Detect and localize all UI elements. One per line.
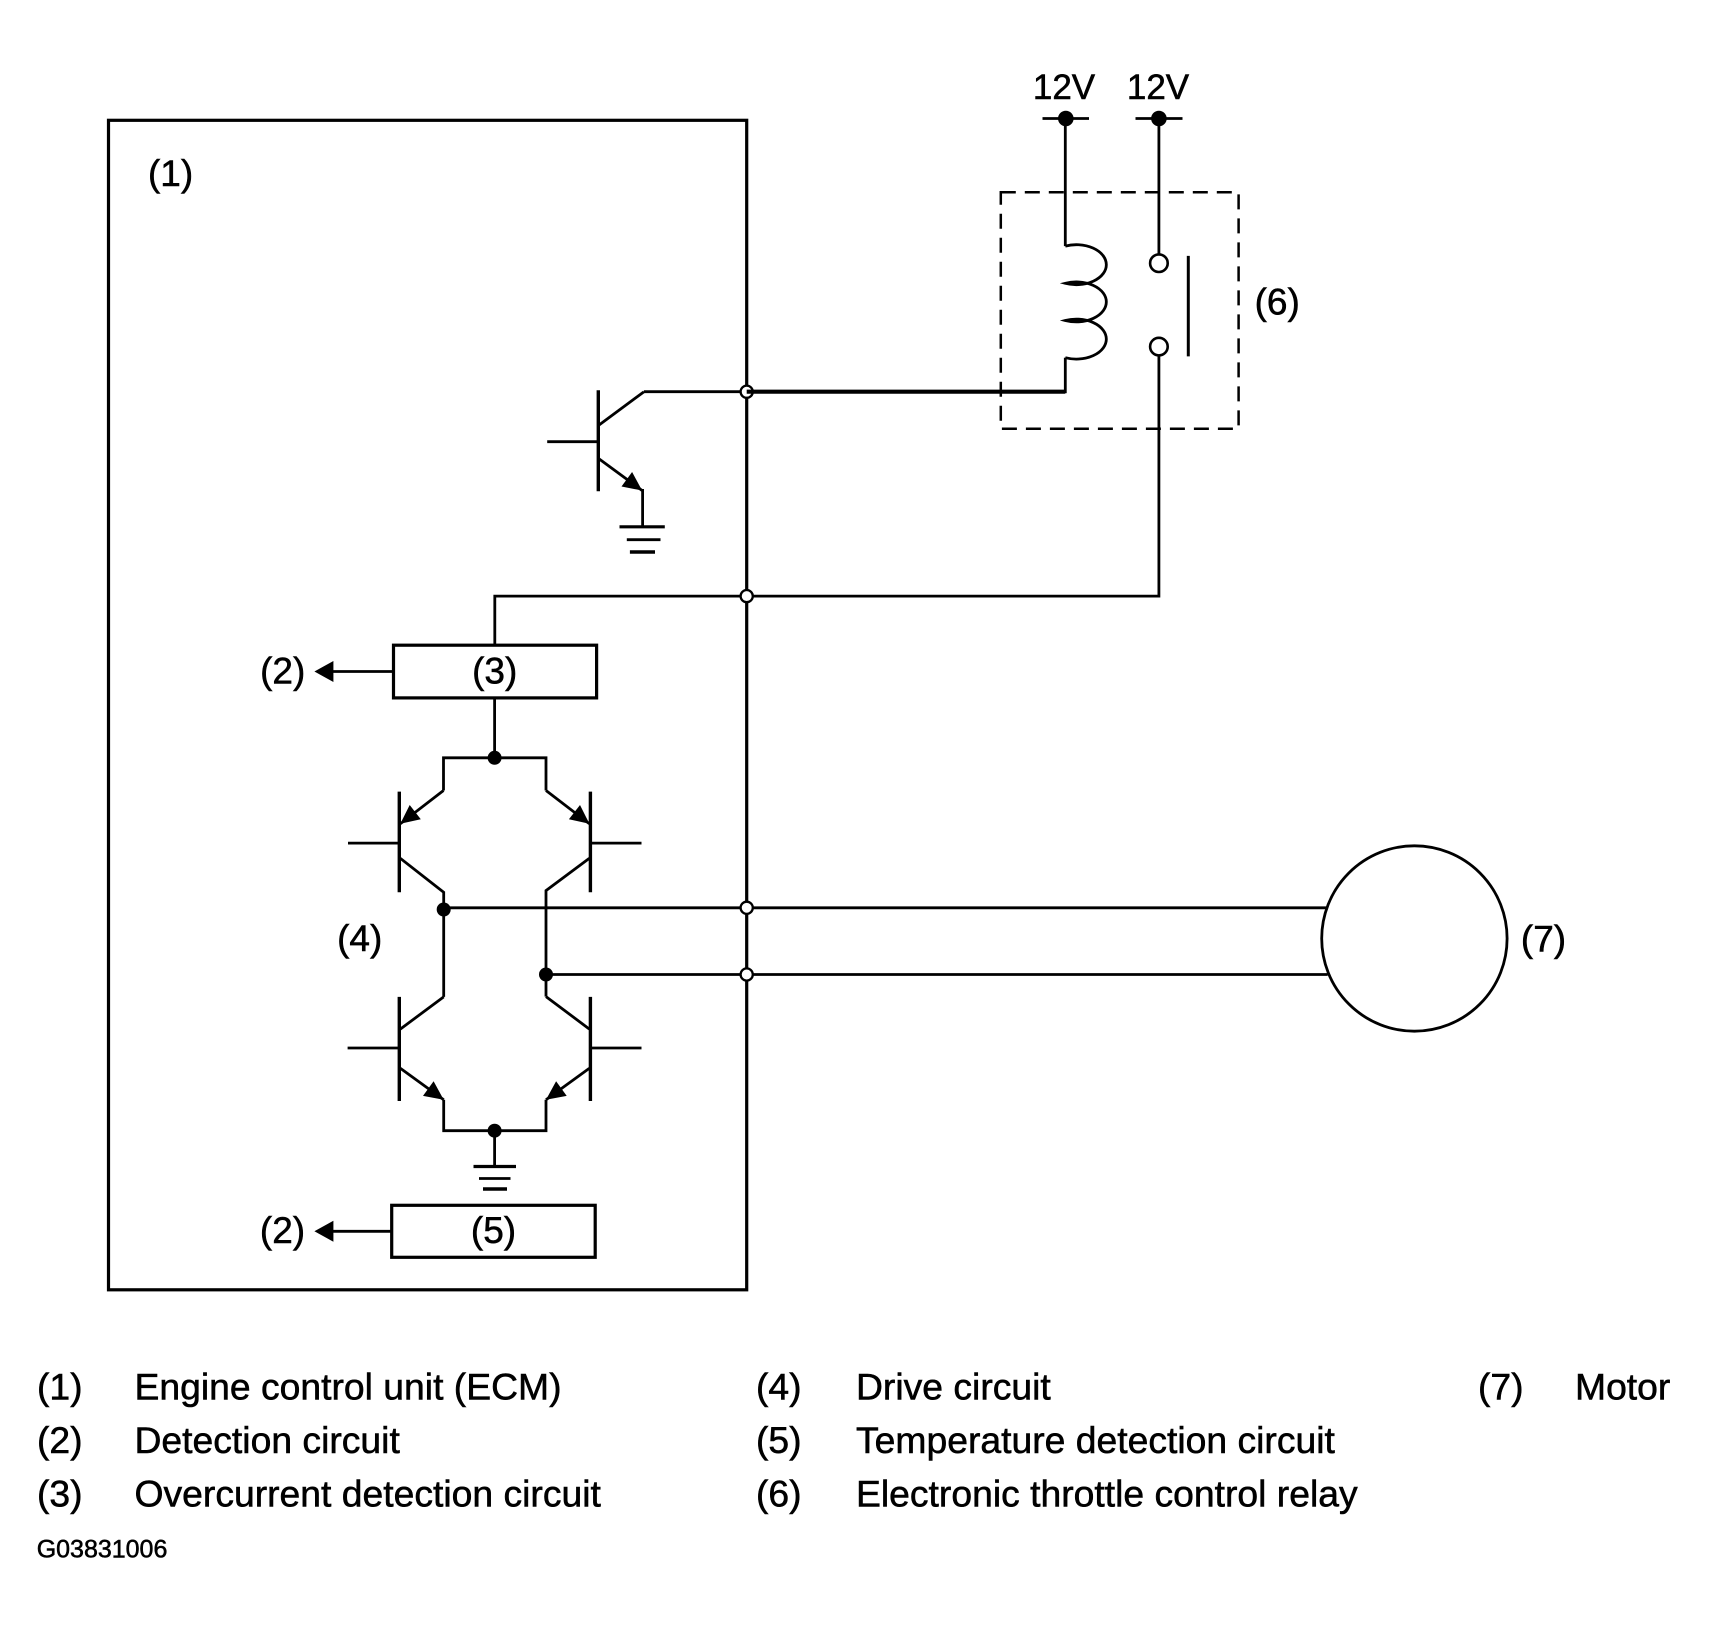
transistor Q2 collector diagonal — [400, 858, 443, 909]
svg-text:(4): (4) — [337, 918, 382, 959]
node dot bottom — [488, 1124, 502, 1138]
arrow to (2) from box (3) — [331, 670, 394, 673]
transistor Q2 emitter diagonal with arrow — [400, 791, 443, 824]
node dot right mid — [539, 968, 553, 982]
12V terminal left — [1043, 117, 1090, 120]
wire coil bottom to ECM node — [1064, 358, 1067, 394]
svg-text:G03831006: G03831006 — [37, 1536, 168, 1564]
transistor Q4 (bottom-left NPN) bar — [398, 997, 401, 1101]
wire bottom node to ground — [493, 1131, 496, 1167]
svg-text:Temperature detection circuit: Temperature detection circuit — [856, 1419, 1336, 1461]
transistor Q4 emitter diagonal with arrow — [400, 1068, 443, 1100]
relay switch bar — [1187, 256, 1190, 357]
svg-text:(2): (2) — [37, 1419, 83, 1461]
wire 12V left to coil — [1064, 119, 1067, 247]
svg-text:(2): (2) — [260, 1210, 305, 1251]
relay dashed box (6) — [1001, 192, 1239, 429]
node circle on ECM edge at motor lead 1 — [741, 902, 753, 914]
12V terminal right — [1136, 117, 1183, 120]
relay contact lower — [1150, 338, 1168, 356]
transistor Q5 base wire — [590, 1047, 641, 1050]
H-bridge top bus — [444, 758, 547, 791]
transistor Q3 emitter diagonal with arrow — [546, 791, 589, 824]
svg-text:(4): (4) — [756, 1365, 802, 1407]
svg-text:Detection circuit: Detection circuit — [135, 1419, 401, 1461]
arrow to (2) from box (5) — [331, 1230, 392, 1233]
wire collector to node — [644, 390, 747, 393]
wire motor lead 1 — [444, 906, 1327, 909]
transistor Q2 (top-left PNP) bar — [398, 792, 401, 893]
transistor Q5 collector diagonal — [546, 997, 589, 1030]
node dot left mid — [437, 903, 451, 917]
transistor Q1 bar — [597, 390, 600, 491]
wire Q1 emitter to ground — [641, 489, 644, 527]
transistor Q1 base wire — [547, 440, 598, 443]
svg-text:(3): (3) — [37, 1473, 83, 1515]
transistor Q1 collector diagonal — [599, 392, 644, 425]
ground GND1 — [620, 525, 665, 528]
svg-text:(6): (6) — [756, 1473, 802, 1515]
svg-text:(2): (2) — [260, 651, 305, 692]
svg-text:Engine control unit (ECM): Engine control unit (ECM) — [135, 1365, 562, 1407]
ground GND2 — [474, 1165, 517, 1168]
svg-text:Electronic throttle control re: Electronic throttle control relay — [856, 1473, 1358, 1515]
svg-text:(5): (5) — [756, 1419, 802, 1461]
legend row 1 — [37, 1365, 1670, 1514]
box (3) overcurrent detection — [394, 645, 597, 698]
wire motor lead 2 — [546, 973, 1328, 976]
wire Q2 collector to Q4 collector (left riser) — [442, 910, 445, 997]
relay coil — [1065, 245, 1106, 359]
svg-text:(1): (1) — [148, 153, 193, 194]
svg-text:12V: 12V — [1033, 68, 1096, 107]
svg-text:Motor: Motor — [1575, 1365, 1670, 1407]
svg-text:12V: 12V — [1127, 68, 1190, 107]
node circle on ECM edge at relay wire — [741, 590, 753, 602]
svg-text:Drive circuit: Drive circuit — [856, 1365, 1051, 1407]
node circle on ECM edge at collector wire — [741, 386, 753, 398]
transistor Q3 (top-right PNP) bar — [589, 792, 592, 893]
wire box (3) bottom to H-bridge top node — [493, 698, 496, 758]
transistor Q3 base wire — [590, 842, 641, 845]
transistor Q4 collector diagonal — [400, 997, 443, 1029]
node circle on ECM edge at motor lead 2 — [741, 968, 753, 980]
transistor Q3 collector diagonal — [546, 858, 589, 974]
ECM box (1) — [109, 120, 747, 1290]
svg-text:(3): (3) — [472, 651, 517, 692]
H-bridge bottom bus — [444, 1100, 546, 1131]
svg-text:(1): (1) — [37, 1365, 83, 1407]
wire horizontal from (3) riser to relay riser at y=596 — [495, 356, 1159, 645]
svg-text:(7): (7) — [1478, 1365, 1524, 1407]
svg-text:(6): (6) — [1255, 282, 1300, 323]
box (5) temperature detection — [392, 1205, 596, 1257]
transistor Q2 base wire — [348, 842, 399, 845]
transistor Q1 emitter diagonal with arrow — [599, 459, 642, 491]
svg-text:(7): (7) — [1521, 919, 1566, 960]
wire 12V right to upper contact — [1158, 119, 1161, 254]
transistor Q5 emitter diagonal with arrow — [546, 1068, 589, 1100]
motor M circle (7) — [1322, 846, 1507, 1031]
node dot top — [488, 751, 502, 765]
transistor Q4 base wire — [348, 1047, 400, 1050]
svg-text:(5): (5) — [471, 1210, 516, 1251]
wire Q5 collector riser (right) — [545, 975, 548, 997]
svg-text:Overcurrent detection circuit: Overcurrent detection circuit — [135, 1473, 602, 1515]
transistor Q5 (bottom-right NPN) bar — [589, 997, 592, 1101]
relay contact upper — [1150, 254, 1168, 272]
